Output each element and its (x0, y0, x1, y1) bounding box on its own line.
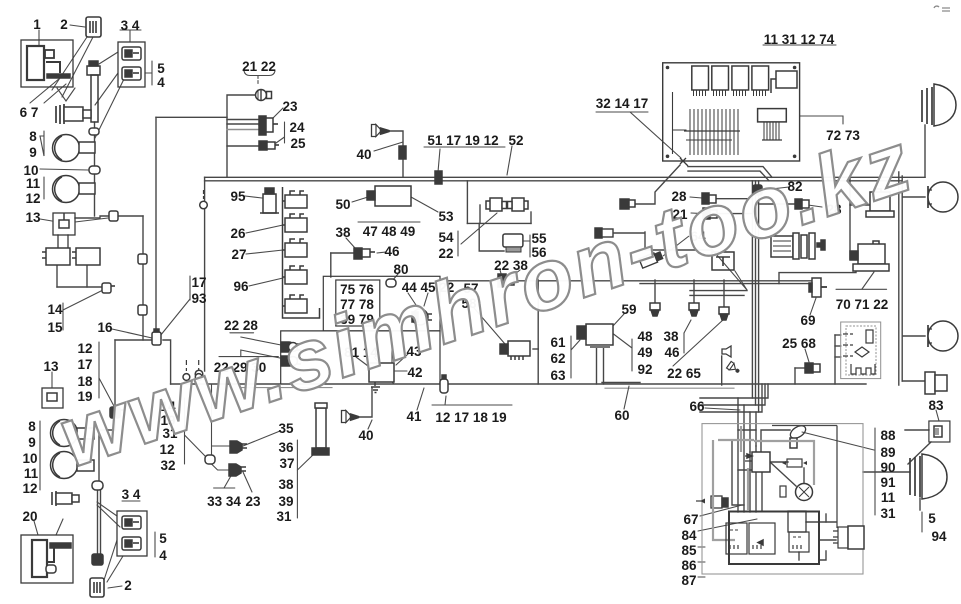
wire 22-38 long line (440, 280, 814, 282)
wire engine reg drop (798, 552, 800, 560)
fuse panel enclosure (323, 276, 440, 331)
svg-text:89: 89 (880, 445, 895, 460)
wire label2228 bracket (230, 332, 254, 334)
wire 28 stub (715, 198, 753, 200)
headlamp 11-12 (53, 176, 96, 203)
starter 61-63 (577, 324, 613, 348)
battery box 20 frame (21, 535, 73, 583)
wire starter branch (602, 382, 640, 384)
relay r1 (283, 191, 308, 208)
svg-text:96: 96 (233, 279, 249, 294)
svg-text:23: 23 (245, 494, 261, 509)
wire lamp1 drop (924, 125, 926, 177)
wire comp2 diag2 (62, 37, 93, 97)
svg-text:8: 8 (29, 129, 37, 144)
ignition switch 64 (771, 233, 825, 259)
battery 1 plates (27, 46, 44, 80)
wire label2265 pointer (673, 319, 724, 366)
svg-text:1: 1 (33, 17, 41, 32)
Tbox 64 (712, 252, 734, 270)
svg-text:61: 61 (550, 335, 566, 350)
terminal circle top (200, 190, 208, 209)
svg-text:38: 38 (663, 329, 679, 344)
wire 83 pointer (908, 442, 931, 464)
ignition coil (745, 452, 770, 472)
wire engine bundle drop a (700, 384, 768, 398)
wire battery tail a (57, 88, 66, 101)
plug 25-68 (805, 363, 820, 373)
wire 23 stub b (227, 123, 260, 125)
connector 22-29-30 pair (281, 356, 301, 366)
wire engine inner v1 (738, 398, 752, 470)
svg-text:52: 52 (508, 133, 523, 148)
wire label3846b bracket (683, 333, 685, 353)
svg-text:20: 20 (22, 509, 37, 524)
wire label21l pointer (691, 212, 703, 215)
svg-text:2: 2 (124, 578, 132, 593)
wire engine dist drop (803, 468, 805, 484)
relay 71 (850, 241, 889, 271)
wire cluster diag1 (97, 502, 117, 516)
svg-text:37: 37 (279, 456, 294, 471)
wire label34 tick (129, 30, 131, 42)
panel relay 1 (692, 66, 709, 96)
horn small a (722, 346, 731, 357)
wire 54 riser (466, 181, 468, 224)
headlamp b2 (51, 452, 95, 479)
connector 51 blob (435, 171, 442, 184)
wire 64 Tbox left l (644, 232, 646, 250)
wire label53 pointer (411, 197, 438, 212)
control panel frame (663, 63, 800, 161)
wire box34b diag1 (104, 540, 117, 580)
wire 64 pointer left (663, 236, 689, 256)
wire label66 pointer (705, 408, 740, 410)
wire label1415 pointer (63, 290, 103, 310)
wire panel harness upper (688, 167, 772, 178)
svg-text:12: 12 (77, 341, 92, 356)
wire box13 link (75, 216, 143, 218)
battery 20 bar (50, 543, 71, 548)
switch 3 (122, 47, 141, 60)
wire right pair a (898, 172, 900, 385)
wire lower bus echo2 (605, 387, 734, 389)
wire label707122 pointer (862, 272, 874, 289)
plug 54b (508, 198, 529, 211)
wire label28r pointer (808, 205, 822, 207)
wire label43 pointer (396, 354, 408, 365)
panel x junction (680, 158, 688, 166)
wire 54 loop right (530, 212, 532, 223)
connector 28 right (795, 199, 809, 209)
wire label81 pointer (356, 357, 372, 369)
wire plug pair link (613, 232, 645, 234)
svg-text:94: 94 (931, 529, 947, 544)
svg-text:87: 87 (681, 573, 696, 588)
wire engine gray g1 (754, 441, 814, 485)
wire box34 diag1 (99, 52, 118, 64)
wire plug83 branch (902, 380, 925, 382)
panel screw a (666, 66, 670, 70)
panel screw b (793, 66, 797, 70)
connector 22-38 (498, 274, 514, 287)
lamp R3 round (928, 321, 958, 351)
wire engine dist link (770, 462, 796, 486)
svg-text:40: 40 (358, 428, 373, 443)
wire main lower bus (171, 383, 866, 385)
svg-text:88: 88 (880, 428, 896, 443)
wire label3334 pointer (224, 474, 232, 488)
wire engine top interior (772, 425, 837, 427)
panel inner trace (673, 92, 687, 154)
wire label35 pointer (243, 431, 280, 446)
battery 1 terminal (45, 50, 54, 58)
wire relay70 stub (850, 204, 869, 206)
connector 2 (86, 17, 101, 37)
relay column spine (283, 187, 320, 318)
wire label484992 bracket (631, 339, 633, 371)
connector 21 left (703, 208, 717, 219)
plug 54a (486, 198, 507, 211)
connector 23 (259, 116, 278, 135)
wire label89b bracket (39, 421, 41, 490)
svg-text:85: 85 (681, 543, 697, 558)
wire engine coil top (761, 430, 790, 452)
wire comp2 diag1 (52, 37, 87, 90)
wire label2425 pointer (276, 137, 285, 143)
svg-text:35: 35 (278, 421, 294, 436)
connector 2 pins (90, 21, 96, 33)
wire label16 pointer (112, 329, 152, 338)
wire central box left edge (204, 177, 206, 371)
wire label36-31 bracket (296, 440, 298, 518)
svg-text:69: 69 (800, 313, 815, 328)
wire label12-19b bracket (432, 404, 512, 406)
wire bundle v1 (751, 181, 753, 398)
svg-text:46: 46 (664, 345, 680, 360)
svg-text:32 14 17: 32 14 17 (596, 96, 649, 111)
wire label594 bracket (921, 512, 923, 532)
wire battery tail b (66, 88, 75, 101)
wire starter drop b (603, 348, 605, 384)
svg-text:63: 63 (550, 368, 566, 383)
switch 4 (122, 67, 141, 80)
wire label2238 tick b (510, 270, 520, 278)
wire label2 pointer (70, 25, 85, 27)
fuse 5 body (91, 75, 98, 122)
plug 35 (230, 441, 247, 453)
switch 3 bottom (122, 516, 141, 529)
wire label28l pointer (690, 197, 702, 198)
wire horn drop (721, 356, 723, 385)
svg-text:14: 14 (47, 302, 63, 317)
wire mid plug35 link (212, 445, 231, 447)
box 13 (53, 213, 75, 235)
wire lamp4 feed (863, 471, 910, 473)
svg-text:36: 36 (278, 440, 294, 455)
wire engine gray g3 (740, 426, 742, 452)
sensor T plug (620, 199, 635, 209)
svg-text:2: 2 (60, 17, 68, 32)
wire bottom lamp harness (98, 430, 100, 481)
svg-text:47 48 49: 47 48 49 (363, 224, 416, 239)
sensor 38-46b (689, 303, 699, 316)
terminal e2 (195, 360, 202, 380)
wire 64 Tbox feed (645, 249, 712, 251)
svg-text:22 65: 22 65 (667, 366, 701, 381)
wire horn40 link (382, 131, 403, 177)
wire 64 pointer b (735, 271, 747, 290)
wire engine gray g2 (713, 440, 735, 540)
wire label64 pointer (704, 240, 747, 290)
relay 13b (72, 248, 100, 265)
plug 83 pair (925, 372, 947, 394)
wire 23 stub c (227, 129, 260, 131)
terminal circle bottom (195, 370, 203, 378)
wire label12-19b pointer (445, 396, 446, 405)
svg-text:11: 11 (881, 490, 896, 505)
svg-text:11: 11 (26, 176, 41, 191)
panel module right (771, 71, 797, 93)
connector Q44 (440, 375, 448, 393)
wire label26 pointer (246, 225, 283, 233)
svg-text:5: 5 (928, 511, 936, 526)
svg-text:17: 17 (191, 275, 206, 290)
svg-text:12: 12 (22, 481, 37, 496)
plug 33-34 (229, 464, 246, 476)
wire label36-31 pointer (297, 452, 316, 470)
wire label141931 bracket (184, 398, 186, 464)
wire flasher feed2 (835, 345, 841, 347)
wire 57 relay stub (533, 348, 538, 350)
svg-text:9: 9 (29, 145, 37, 160)
wire engine box right v (825, 514, 827, 522)
svg-text:31: 31 (276, 509, 292, 524)
wire label707122 bracket (836, 288, 887, 290)
box 83 (929, 421, 950, 442)
svg-text:50: 50 (335, 197, 350, 212)
fuse box 75-79 (336, 280, 380, 326)
wire label89 bracket (40, 131, 44, 156)
svg-text:83: 83 (928, 398, 944, 413)
relay r5 (283, 295, 308, 313)
svg-text:11 31 12 74: 11 31 12 74 (764, 32, 835, 47)
svg-text:16: 16 (97, 320, 113, 335)
wire lamp3 branch (902, 335, 925, 337)
panel screw d (793, 155, 797, 159)
svg-text:11: 11 (24, 466, 39, 481)
wire label1415 bracket (62, 303, 64, 330)
wire 21 stub (716, 213, 753, 215)
switch box 3-4 bottom (117, 511, 147, 556)
wire label51-12 bracket (424, 146, 505, 148)
wire 54 loop bottom (467, 222, 531, 224)
horn 40 bottom (342, 411, 359, 423)
wire box34 diag3 (95, 79, 124, 138)
sensor 48-92 (650, 303, 660, 316)
relay 70 (866, 189, 894, 217)
svg-text:62: 62 (550, 351, 565, 366)
svg-text:92: 92 (637, 362, 652, 377)
wire label2b pointer (108, 586, 122, 588)
wire label5422 bracket (457, 231, 459, 256)
wire 83 link (905, 429, 929, 431)
svg-text:8: 8 (28, 419, 36, 434)
wire bottom battery pair right (100, 490, 102, 556)
svg-text:4: 4 (157, 75, 165, 90)
wire 55 feed (479, 223, 504, 251)
svg-text:54: 54 (438, 230, 454, 245)
wire label2122 bracket (244, 71, 275, 84)
wire label86 tick (698, 561, 705, 563)
wire lamp2 branch (902, 196, 925, 198)
svg-text:3 4: 3 4 (122, 487, 141, 502)
wire lower bus echo (240, 387, 332, 389)
svg-text:60: 60 (614, 408, 629, 423)
wire label14c pointer (374, 357, 381, 365)
oil sender 67 (696, 496, 728, 508)
wire box13 pointer (75, 218, 108, 222)
plug 69 (809, 278, 827, 297)
svg-text:12: 12 (25, 191, 40, 206)
wire label67 diag b (44, 84, 66, 103)
wire label2238 tick a (500, 270, 502, 277)
wire sensor3 stub (723, 280, 725, 307)
wire label12-19 bracket (98, 342, 100, 398)
wire top bus lower (205, 180, 902, 182)
engine box frame (702, 424, 863, 574)
battery 1 bar (47, 74, 70, 78)
battery 20 nub (46, 565, 56, 573)
wire label7273 link (800, 116, 843, 124)
svg-text:67: 67 (683, 512, 698, 527)
relay r2 (283, 214, 308, 232)
relay 57-58 (500, 341, 530, 360)
wire label96 pointer (249, 278, 283, 286)
wire bottom battery pair left (97, 490, 99, 556)
wire 38-46 drop (331, 252, 354, 254)
relay 95 (260, 188, 279, 213)
wire label5556 bracket (529, 235, 531, 257)
wire label3846b pointer (684, 320, 691, 333)
wire mid plug line a (211, 384, 213, 455)
wire top harness x97 (94, 122, 96, 216)
wire 21-22 riser (227, 95, 256, 177)
switch 4 bottom (122, 537, 141, 550)
condenser 36-37 (312, 403, 329, 455)
switch box 3-4 (118, 42, 145, 87)
svg-text:5: 5 (157, 61, 165, 76)
wire 42 bus link (392, 382, 394, 384)
svg-text:21 22: 21 22 (242, 59, 276, 74)
svg-text:25 68: 25 68 (782, 336, 816, 351)
svg-text:46: 46 (384, 244, 400, 259)
battery box 1 frame (21, 40, 73, 87)
svg-text:53: 53 (438, 209, 454, 224)
connector mid blob (205, 455, 215, 464)
connector on x143 b (138, 305, 147, 315)
svg-text:38: 38 (278, 477, 294, 492)
svg-text:15: 15 (47, 320, 63, 335)
svg-text:23: 23 (282, 99, 298, 114)
wire label1112 bracket (43, 177, 45, 199)
wire engine bundle drop b (700, 384, 765, 405)
wire top bus upper (205, 176, 925, 178)
wire label616263 bracket (570, 336, 572, 378)
svg-text:40: 40 (356, 147, 371, 162)
wire engine inner v3 (749, 412, 751, 452)
wire label1 tick (38, 30, 40, 46)
connector 12-19 blob (110, 407, 124, 418)
connector 16 (152, 329, 161, 345)
wire label52 pointer (507, 146, 512, 175)
wire label2425 bracket (284, 122, 286, 143)
wire label34 bracket (120, 29, 141, 31)
wire engine relay link2 (819, 539, 836, 541)
wire label23b pointer (243, 472, 252, 492)
svg-text:17: 17 (77, 357, 92, 372)
wire 25-68 drop (794, 368, 796, 384)
wire label5758 pointer (474, 308, 505, 344)
svg-text:6 7: 6 7 (20, 105, 39, 120)
regulator block (789, 532, 809, 552)
connector 38-46 (354, 248, 375, 259)
plug B angled (639, 251, 663, 269)
svg-text:9: 9 (28, 435, 36, 450)
connector bottom pair (92, 554, 103, 565)
relay r4 (283, 266, 308, 284)
wire box13 feet (57, 235, 59, 248)
wire engine inner h1 (738, 429, 756, 431)
wire x538 drop (537, 280, 539, 384)
lamp R1 big (922, 84, 956, 126)
wire label85 tick (698, 546, 705, 548)
wire right pair b (901, 176, 903, 381)
wire box34 diag2 (95, 73, 118, 105)
wire label60 pointer (624, 386, 629, 409)
starter block (788, 511, 806, 532)
svg-text:13: 13 (25, 210, 41, 225)
connector 21-22 (256, 90, 272, 101)
engine relay right (833, 526, 864, 549)
wire label34b bracket (122, 500, 140, 502)
relay 55-56 (503, 234, 523, 252)
relay 13a (42, 248, 70, 265)
wire label2568 pointer (805, 349, 809, 362)
relay r3 (283, 239, 308, 257)
panel relay 2 (712, 66, 729, 96)
wire label616263 pointer (571, 340, 580, 350)
wire engine coil drop (761, 472, 763, 511)
wire box34b diag2 (107, 556, 123, 582)
connector 14-15 (102, 283, 115, 293)
wire label83 tick (936, 410, 939, 421)
component 42 (369, 363, 394, 393)
wire label41 pointer (417, 388, 424, 410)
svg-text:12 17 18 19: 12 17 18 19 (435, 410, 506, 425)
svg-text:70 71 22: 70 71 22 (836, 297, 889, 312)
svg-text:5: 5 (159, 531, 167, 546)
wire label88-31 bracket (874, 428, 876, 515)
connector 82 (753, 185, 762, 195)
battery 20 plates (32, 540, 47, 577)
wire engine inner h5 (749, 452, 751, 512)
wire mid vertical x143 (142, 216, 144, 340)
wire engine inner h2 (732, 440, 744, 505)
svg-text:84: 84 (681, 528, 697, 543)
connector 10 (89, 166, 100, 174)
wire label474849 bracket (358, 221, 420, 223)
